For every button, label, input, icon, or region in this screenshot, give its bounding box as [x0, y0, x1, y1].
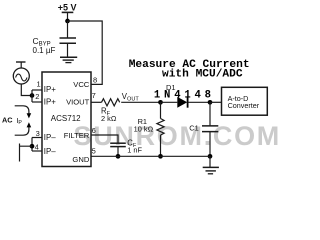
svg-text:2 kΩ: 2 kΩ	[101, 114, 117, 123]
wire pin 6 to CF	[91, 135, 118, 143]
svg-text:+5 V: +5 V	[58, 3, 77, 13]
wire IP- tie to load terminal	[20, 144, 33, 162]
wire +5V node down to CBYP	[67, 21, 69, 38]
wire ground stub	[209, 156, 211, 167]
op-amp U1 ACS712 body	[42, 72, 91, 167]
svg-text:ACS712: ACS712	[51, 114, 81, 123]
svg-text:SUNROM.COM: SUNROM.COM	[74, 121, 281, 151]
block A-to-D Converter	[222, 87, 268, 115]
svg-text:5: 5	[92, 146, 96, 155]
junction dot IP+ tie	[30, 93, 35, 98]
wire C1 node to ADC box	[210, 101, 222, 103]
svg-text:with MCU/ADC: with MCU/ADC	[162, 69, 243, 81]
wire terminal to source	[20, 62, 22, 68]
svg-text:FILTER: FILTER	[64, 131, 90, 140]
wire C1 node down	[209, 102, 211, 126]
wire RF to R1 node	[121, 101, 160, 103]
svg-text:IP: IP	[16, 116, 22, 126]
caption Measure AC Current with MCU/ADC	[129, 59, 250, 81]
wire pin 7 to RF	[91, 101, 102, 103]
junction dot IP- tie	[30, 144, 35, 149]
svg-text:GND: GND	[72, 155, 89, 164]
junction dot VOUT node	[158, 100, 163, 105]
annotation AC IP current arrow	[15, 106, 32, 135]
wire pin 2	[32, 101, 42, 103]
power +5V rail bar	[62, 11, 74, 13]
svg-text:8: 8	[93, 76, 97, 85]
svg-text:1 nF: 1 nF	[127, 145, 142, 154]
svg-text:VCC: VCC	[73, 80, 90, 89]
capacitor C1	[202, 126, 218, 132]
junction dot C1 node	[208, 100, 213, 105]
junction dot +5V node	[65, 19, 70, 24]
svg-text:VOUT: VOUT	[122, 92, 140, 103]
junction dot R1 bottom	[158, 154, 163, 159]
svg-text:IP+: IP+	[44, 85, 56, 94]
svg-text:C1: C1	[189, 124, 198, 133]
value label CBYP 0.1uF	[33, 36, 56, 55]
junction dot ground node	[208, 154, 213, 159]
svg-text:AC: AC	[2, 115, 13, 124]
diode D1 1N4148	[177, 97, 187, 108]
capacitor CBYP	[60, 38, 77, 43]
wire ground rail (pin 5 to ground)	[91, 155, 210, 157]
wire CBYP to ground	[67, 43, 69, 57]
wire pin 3	[32, 137, 42, 139]
svg-text:3: 3	[36, 129, 40, 138]
svg-text:Converter: Converter	[228, 101, 260, 110]
wire VOUT node to diode	[161, 101, 178, 103]
wire IP- tie vertical	[31, 138, 33, 152]
resistor RF	[102, 99, 120, 106]
svg-text:10 kΩ: 10 kΩ	[134, 125, 154, 134]
value label CF 1nF	[127, 139, 142, 155]
wire +5V node to VCC (right and down)	[68, 21, 103, 84]
ground (bottom right)	[203, 167, 219, 173]
junction dot CF bottom	[116, 154, 121, 159]
svg-text:4: 4	[35, 143, 39, 152]
svg-text:2: 2	[35, 92, 39, 101]
svg-text:1: 1	[37, 80, 41, 89]
resistor R1 (vertical)	[157, 102, 164, 156]
svg-text:1N4148: 1N4148	[154, 89, 215, 101]
wire pin 4	[32, 150, 42, 152]
value label RF 2k	[101, 106, 117, 122]
AC source terminal bar	[16, 61, 26, 63]
svg-text:6: 6	[92, 126, 96, 135]
svg-text:VIOUT: VIOUT	[66, 97, 90, 106]
wire C1 to ground rail	[209, 132, 211, 157]
wire source to IP+ junction	[21, 84, 32, 96]
svg-text:IP–: IP–	[44, 133, 56, 142]
wire CF to ground rail	[117, 147, 119, 157]
wire pin 1	[32, 89, 42, 91]
wire IP+ tie vertical	[31, 90, 33, 102]
svg-text:IP–: IP–	[44, 147, 56, 156]
ground (below CBYP)	[60, 57, 77, 62]
svg-text:7: 7	[92, 91, 96, 100]
AC source V1 (sine)	[13, 68, 29, 84]
svg-text:IP+: IP+	[44, 97, 56, 106]
label AC IP	[2, 115, 22, 126]
wire diode to C1 node	[188, 101, 210, 103]
wire +5V bar to junction	[67, 12, 69, 21]
capacitor CF	[110, 143, 126, 146]
svg-text:0.1 µF: 0.1 µF	[33, 46, 56, 55]
